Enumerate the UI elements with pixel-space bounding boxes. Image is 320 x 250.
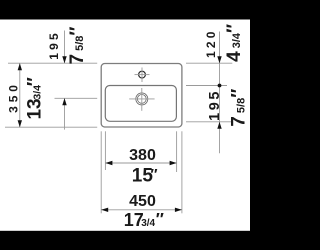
drain inner circle <box>137 95 146 104</box>
arrow 350 top <box>18 63 22 70</box>
arrow 195 top-left pointing up <box>62 98 66 105</box>
extension line bottom (basin front edge level, left) <box>5 126 97 128</box>
arrow 195 right pointing up <box>217 122 221 129</box>
background black (transparent area) <box>0 0 250 250</box>
tap hole centerline horizontal <box>135 74 150 76</box>
drain centerline horizontal <box>129 98 154 100</box>
arrow 120 pointing down <box>217 56 221 63</box>
svg-text:380: 380 <box>129 147 156 164</box>
svg-text:120: 120 <box>204 28 218 58</box>
svg-text:195: 195 <box>47 30 61 60</box>
extension line basin left edge bottom <box>100 131 102 213</box>
tap hole centerline vertical <box>141 68 143 83</box>
basin outer outline <box>101 64 182 128</box>
arrow 450 left <box>101 208 108 212</box>
drain centerline vertical <box>141 88 143 111</box>
svg-text:450: 450 <box>129 193 156 210</box>
extension line top (basin rear edge level, left) <box>8 62 97 64</box>
arrow 350 bottom <box>18 120 22 127</box>
dimension line 120-195 right <box>219 32 221 154</box>
extension line bowl left edge bottom <box>104 131 106 170</box>
dimension line 195 top-left upper segment <box>64 31 66 64</box>
white drawing band <box>0 20 250 231</box>
dot chained dimension point <box>218 84 222 88</box>
extension line drain centerline left <box>55 97 98 99</box>
dimension line 350 <box>19 63 21 127</box>
drain outer circle <box>136 93 148 105</box>
tap hole circle <box>139 71 146 78</box>
svg-text:195: 195 <box>207 89 223 121</box>
dimension line 450 <box>101 209 182 211</box>
arrow 450 right <box>175 208 182 212</box>
dimension line 195 top-left lower segment <box>64 98 66 129</box>
extension line basin rear edge level right <box>186 62 232 64</box>
extension line bowl front edge level right <box>186 121 231 123</box>
svg-text:350: 350 <box>7 81 21 113</box>
extension line bowl rear edge level right <box>186 85 227 87</box>
dimension line 380 <box>105 162 176 164</box>
extension line bowl right edge bottom <box>176 131 178 172</box>
arrow 195 top-left pointing down <box>62 56 66 63</box>
extension line basin right edge bottom <box>181 131 183 213</box>
arrow 380 left <box>105 161 112 165</box>
inner bowl outline <box>105 86 176 122</box>
arrow 380 right <box>170 161 177 165</box>
